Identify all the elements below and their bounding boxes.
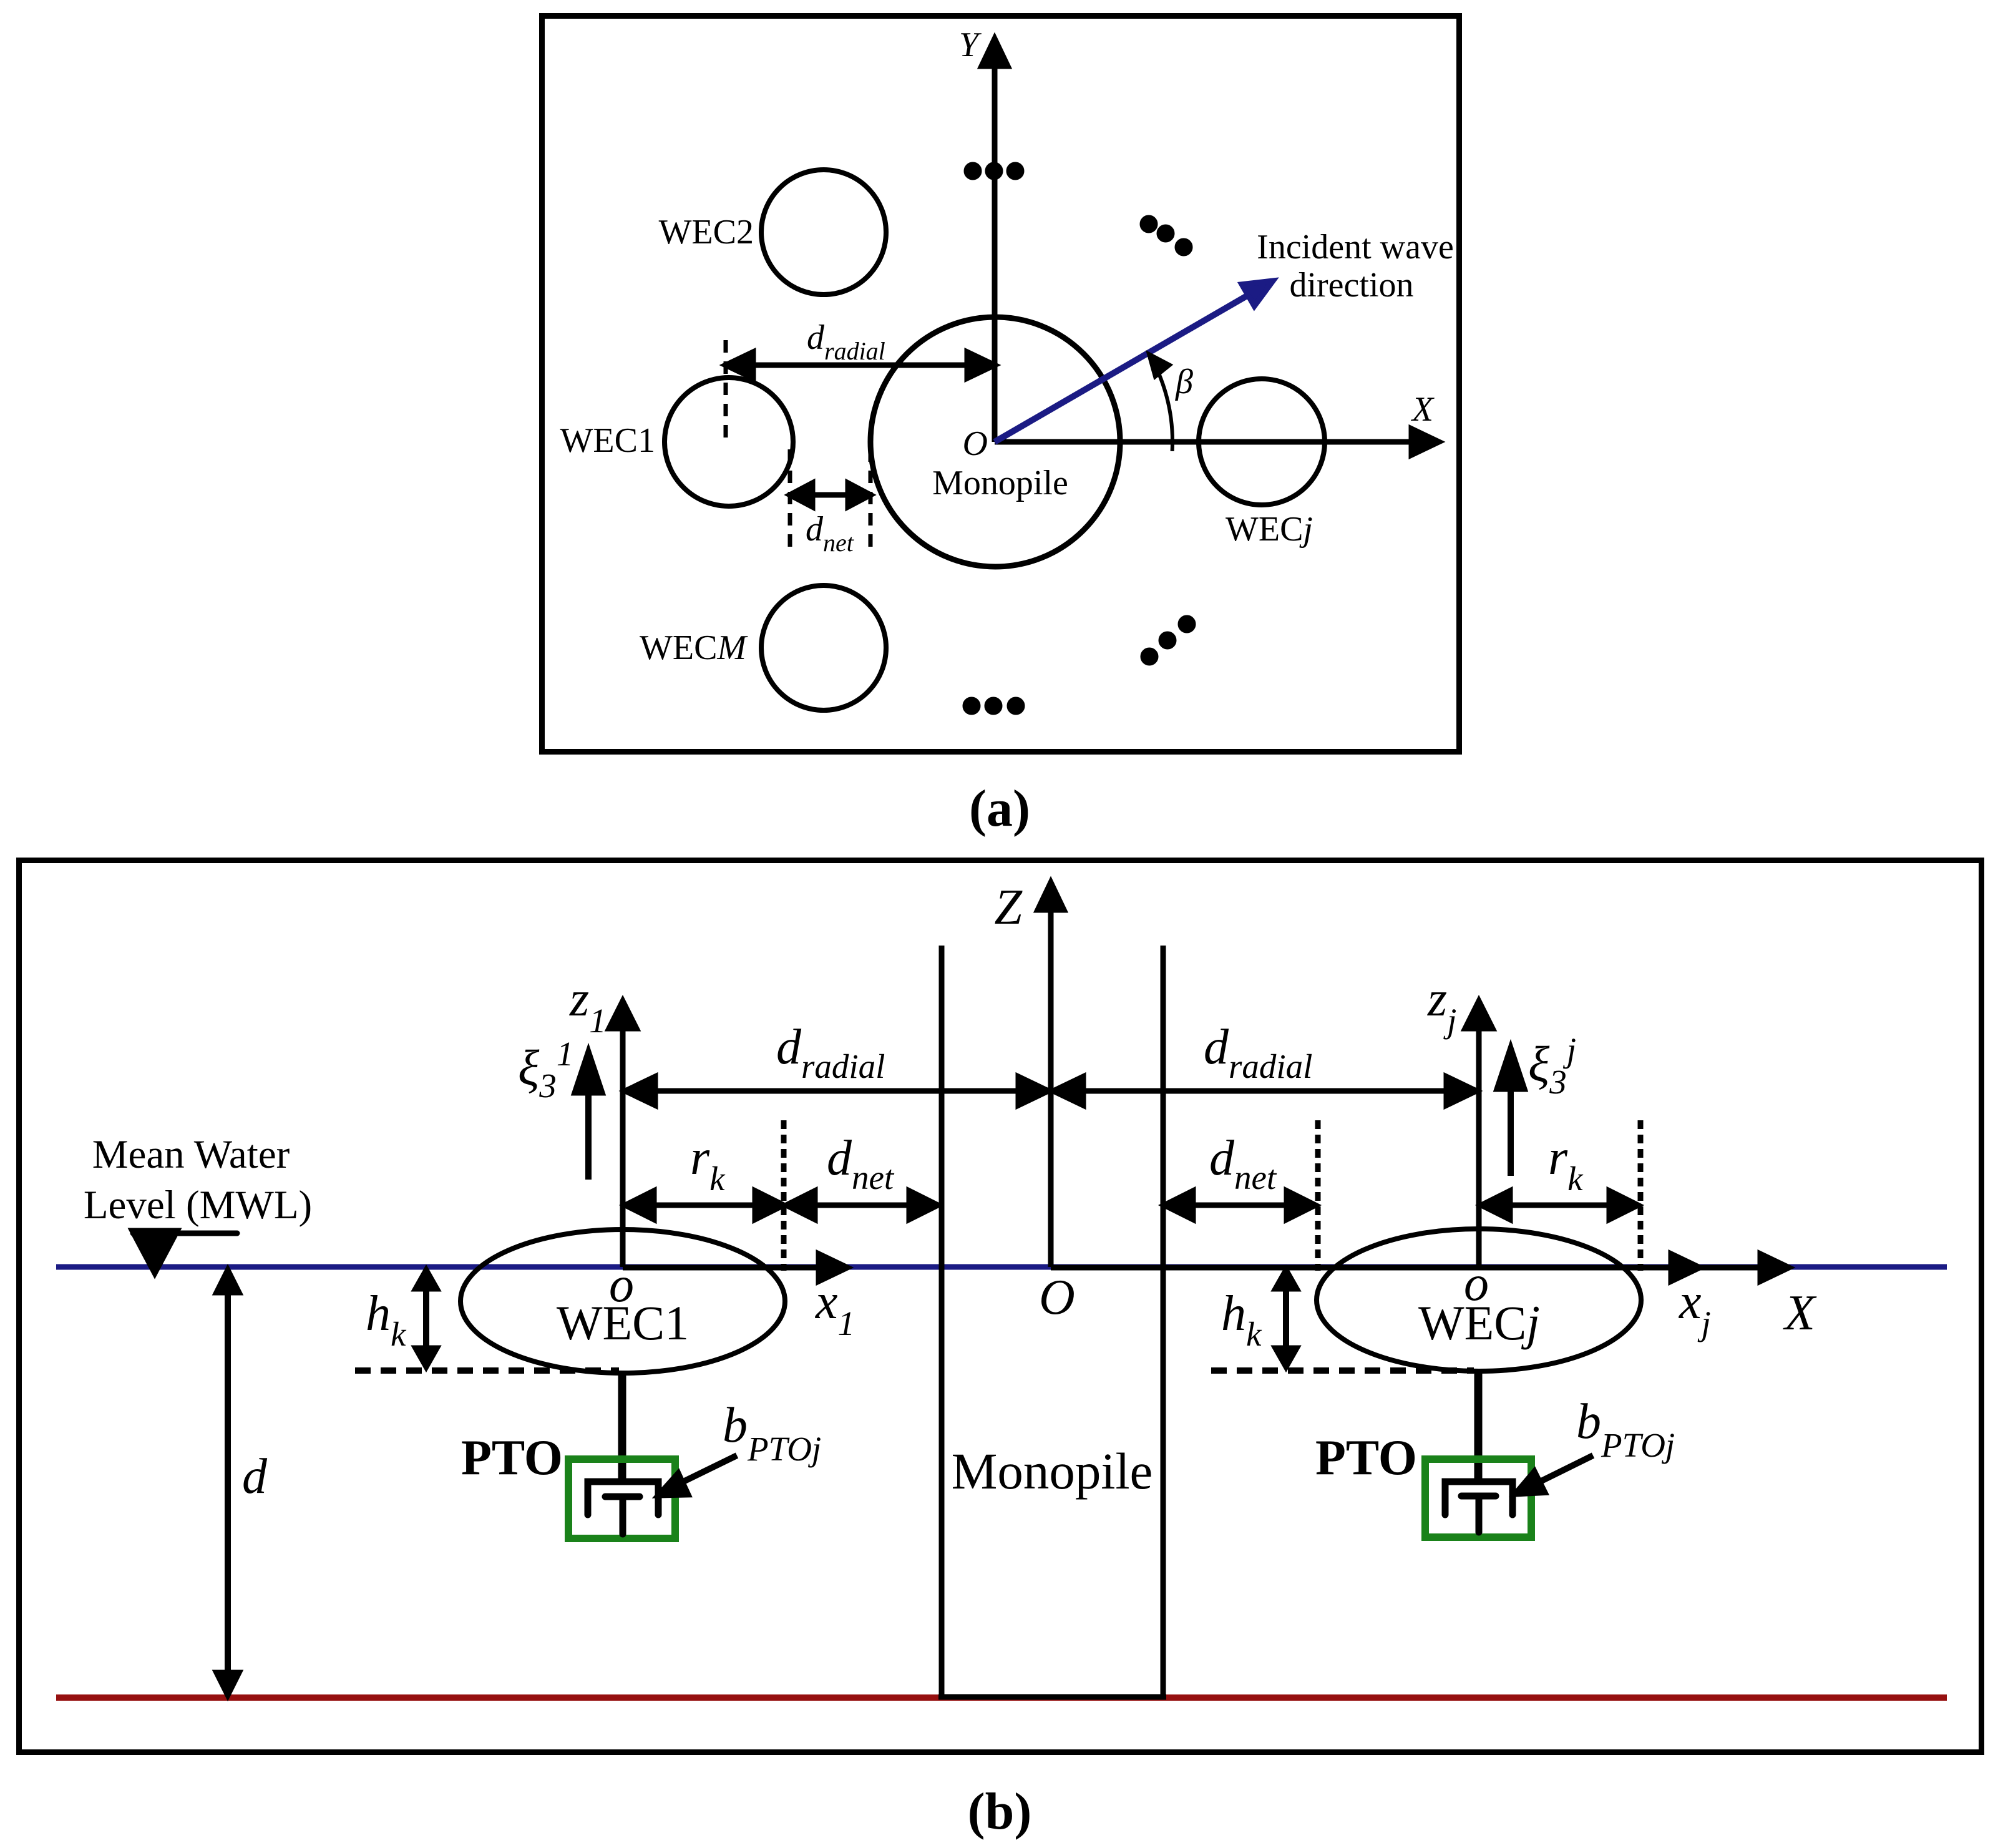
svg-text:O: O: [963, 424, 988, 463]
svg-text:O: O: [1039, 1270, 1075, 1325]
svg-text:Monopile: Monopile: [932, 464, 1068, 502]
d_net dimension arrow left: [786, 1191, 938, 1220]
svg-text:Monopile: Monopile: [952, 1442, 1153, 1500]
svg-text:Mean Water: Mean Water: [92, 1132, 290, 1177]
d_net left dashed tangent line: [788, 449, 792, 549]
water depth d dimension arrow: [217, 1270, 239, 1695]
X axis (panel b) with xj arrowhead: [1051, 1254, 1789, 1281]
PTO damper symbol left: [588, 1482, 658, 1534]
svg-text:WEC1: WEC1: [560, 421, 655, 460]
Y axis of panel (a): [982, 39, 1008, 442]
svg-text:d: d: [242, 1449, 268, 1504]
PTO box left (green): [568, 1459, 675, 1538]
svg-text:WEC1: WEC1: [557, 1296, 689, 1350]
panel (b) outer frame box: [19, 861, 1982, 1753]
b_PTOj pointer arrow left: [658, 1455, 737, 1495]
r_k dimension arrow left: [625, 1191, 784, 1220]
svg-text:Z: Z: [995, 880, 1023, 935]
dashed tangent line right of WECj: [1638, 1120, 1644, 1271]
X axis of panel (a): [995, 429, 1439, 455]
WEC1 PTO rod: [618, 1371, 626, 1480]
svg-text:WECj: WECj: [1226, 510, 1313, 549]
monopile bottom (panel b): [938, 1694, 1166, 1700]
r_k dimension arrow right: [1481, 1191, 1638, 1220]
b_PTOj pointer arrow right: [1515, 1455, 1593, 1494]
d_radial dimension arrow left (panel b): [625, 1077, 1048, 1105]
d_net dimension arrow right: [1164, 1191, 1315, 1220]
WEC2 buoy circle: [761, 170, 886, 295]
WEC1 buoy ellipse (panel b): [461, 1230, 785, 1373]
mean water level symbol (triangle): [132, 1231, 237, 1273]
dashed tangent line left of WECj: [1315, 1120, 1321, 1271]
svg-text:Incident wave: Incident wave: [1257, 228, 1454, 266]
heave displacement xi_3^j arrow: [1497, 1048, 1524, 1176]
d_net dimension arrow (panel a): [790, 483, 870, 507]
ellipsis dots bottom center (panel a): [965, 700, 1022, 712]
d_radial dimension arrow (panel a): [726, 352, 995, 378]
svg-text:WECj: WECj: [1418, 1296, 1540, 1350]
incident wave direction arrow (blue): [995, 281, 1273, 442]
WECj buoy ellipse (panel b): [1317, 1229, 1641, 1371]
beta angle arc with arrowhead: [1150, 356, 1172, 451]
mean water level line (blue): [56, 1264, 1947, 1270]
svg-text:Level (MWL): Level (MWL): [84, 1183, 312, 1228]
svg-text:WECM: WECM: [640, 628, 748, 667]
h_k dimension arrow right: [1275, 1270, 1297, 1367]
zj axis of WECj: [1465, 1001, 1493, 1267]
svg-text:PTO: PTO: [461, 1430, 563, 1485]
Z axis (panel b): [1038, 882, 1064, 1267]
svg-text:(a): (a): [969, 780, 1030, 838]
svg-text:X: X: [1783, 1286, 1817, 1341]
WEC1 buoy circle: [665, 378, 793, 506]
WECj buoy circle: [1199, 379, 1325, 505]
WECM buoy circle: [761, 585, 886, 710]
h_k dimension arrow left: [416, 1270, 437, 1367]
d_radial dimension arrow right (panel b): [1053, 1077, 1476, 1105]
ellipsis dots upper right (panel a): [1143, 218, 1190, 253]
ellipsis dots on Y axis: [967, 165, 1021, 177]
monopile circle (panel a): [870, 317, 1120, 567]
svg-text:direction: direction: [1289, 266, 1413, 305]
Mean Water Level text: [84, 1132, 312, 1228]
x1 axis of WEC1: [623, 1254, 847, 1281]
svg-text:WEC2: WEC2: [659, 213, 754, 252]
monopile left wall (panel b): [939, 946, 945, 1697]
seabed line (dark red): [56, 1694, 1947, 1701]
svg-text:(b): (b): [968, 1782, 1032, 1841]
Incident wave direction label: [1257, 228, 1454, 305]
ellipsis dots lower right (panel a): [1143, 618, 1193, 663]
dashed tangent line right of WEC1: [781, 1120, 787, 1271]
svg-text:X: X: [1411, 390, 1435, 429]
dashed draft line under WECj: [1211, 1367, 1474, 1374]
dashed centerline above WEC1: [724, 340, 728, 444]
svg-text:PTO: PTO: [1315, 1430, 1417, 1485]
d_net right dashed tangent line: [869, 449, 873, 549]
heave displacement xi_3^1 arrow: [575, 1052, 602, 1180]
panel (a) outer frame box: [542, 16, 1460, 752]
z1 axis of WEC1: [609, 1001, 636, 1267]
monopile right wall (panel b): [1161, 946, 1166, 1697]
PTO damper symbol right: [1445, 1482, 1513, 1532]
PTO box right (green): [1425, 1459, 1531, 1537]
WECj PTO rod: [1474, 1369, 1483, 1480]
svg-text:β: β: [1175, 363, 1193, 401]
dashed draft line under WEC1: [355, 1367, 619, 1374]
